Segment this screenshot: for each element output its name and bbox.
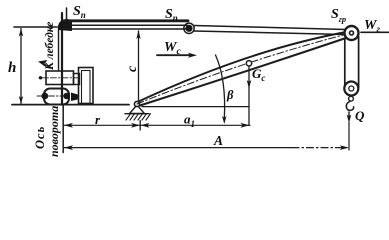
rope from block to boom-tip pulley (lower): [194, 31, 345, 35]
a1 left arrowhead: [141, 123, 150, 128]
winch lower drum right hub: [63, 93, 69, 99]
svg-text:Q: Q: [355, 108, 365, 123]
ground base line: [12, 104, 129, 106]
svg-text:A: A: [213, 133, 223, 148]
Gc force line: [248, 66, 250, 126]
svg-text:Gc: Gc: [252, 66, 265, 83]
Wc force arrow: [157, 54, 191, 56]
Wг force line: [361, 31, 389, 33]
dimension c top arrowhead: [136, 31, 140, 40]
boom centerline (dash-dot): [137, 33, 351, 104]
a1 right arrowhead: [241, 123, 250, 128]
tackle rope fall 3: [64, 28, 186, 30]
winch coupling wedge: [71, 93, 78, 102]
dimension h bottom arrowhead: [19, 96, 23, 104]
r left arrowhead: [64, 123, 73, 128]
svg-text:Ось: Ось: [33, 126, 47, 149]
dimension line r + a1: [64, 124, 251, 126]
winch lower drum: [44, 89, 69, 105]
svg-text:Sгр: Sгр: [331, 7, 346, 24]
winch lower drum axis (dash-dot): [37, 95, 78, 97]
winch upper drum gear step: [74, 74, 80, 85]
winch lower drum left hub: [41, 93, 48, 100]
svg-text:a1: a1: [184, 112, 195, 130]
A left arrowhead: [64, 145, 73, 150]
pivot base line: [125, 113, 149, 115]
a1/r shared tick: [139, 121, 141, 131]
pivot hatching: [126, 114, 151, 120]
winch upper drum axis (dash-dot): [39, 77, 80, 79]
tackle rope fall 1 (thick): [64, 19, 188, 22]
boom tip pulley: [345, 26, 359, 40]
Gc arrowhead: [247, 80, 252, 89]
tackle rope fall 2: [64, 24, 187, 26]
dimension line A: [64, 147, 293, 149]
svg-text:К лебедке: К лебедке: [44, 22, 56, 71]
dimension h top arrowhead: [19, 29, 23, 37]
hook block pulley: [344, 82, 358, 96]
Q force arrow: [348, 112, 350, 117]
dimension h line: [20, 29, 22, 104]
svg-text:Sп: Sп: [73, 4, 86, 20]
hook block right fall: [358, 37, 360, 88]
svg-text:β: β: [226, 88, 234, 102]
winch frame (tall stand): [79, 68, 94, 104]
rope direction arrowhead (to winch): [38, 60, 48, 67]
hook block left fall: [344, 40, 346, 88]
boom heel pivot pin: [134, 101, 139, 106]
dimension h extension line (top): [14, 26, 57, 28]
mast top pin tick: [66, 8, 68, 19]
rope from block to boom-tip pulley (upper): [194, 26, 346, 30]
svg-text:h: h: [8, 60, 16, 76]
svg-text:c: c: [125, 65, 140, 72]
r right arrowhead: [131, 123, 140, 128]
A right arrowhead: [340, 145, 349, 150]
boom bottom edge: [140, 36, 352, 106]
beta angle arc with arrow: [216, 55, 225, 119]
beta reference horizontal line: [142, 106, 249, 108]
winch rope down the mast: [58, 26, 60, 70]
mast: [61, 13, 63, 104]
winch upper drum axle dot: [39, 76, 42, 79]
boom heel pivot triangle: [130, 105, 145, 114]
dimension c line: [138, 31, 140, 103]
rotation axis tick: [62, 105, 64, 153]
mast-top sheave blob: [58, 19, 72, 31]
winch upper drum: [46, 71, 74, 85]
svg-text:поворота: поворота: [47, 106, 61, 157]
svg-text:Sп: Sп: [165, 7, 178, 23]
boom centre of gravity point: [246, 61, 251, 66]
traveling block: [184, 23, 194, 33]
boom top edge: [139, 32, 350, 102]
hook: [349, 96, 354, 101]
